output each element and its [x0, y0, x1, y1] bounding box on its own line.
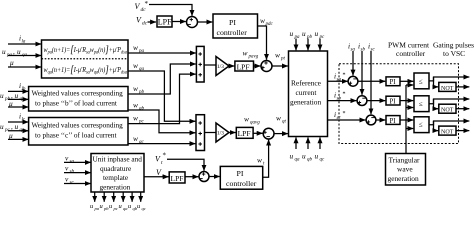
svg-text:LPF: LPF — [238, 129, 251, 138]
wire i_sb down into summing junction E2 — [361, 51, 363, 95]
wire mu into phase b box — [8, 106, 28, 108]
svg-text:qa: qa — [295, 158, 301, 163]
wire v_sa into template box — [64, 161, 91, 163]
svg-text:w: w — [243, 49, 248, 58]
wire template output u_pb down — [103, 192, 105, 202]
block PI controller U1 (dc bus) — [213, 14, 258, 38]
wire gain to LPF (Q) — [229, 132, 236, 134]
wire carrier into comparator C — [406, 128, 413, 130]
svg-text:u: u — [315, 29, 319, 38]
wire w_qa to summer Q input 1 — [128, 71, 195, 121]
svg-text:w: w — [133, 134, 138, 143]
svg-text:u: u — [128, 203, 132, 210]
wire E1 to PI A — [358, 80, 385, 82]
svg-text:qc: qc — [139, 140, 145, 145]
svg-text:≤: ≤ — [419, 100, 423, 108]
wire u_qb into ref box bottom — [307, 137, 309, 149]
wire template V_t output into LPF — [144, 176, 169, 178]
block LPF (P channel) — [235, 61, 254, 71]
summing junction E3 — [366, 115, 376, 125]
wire E2 to PI B — [367, 100, 385, 102]
wire summer P to gain 1/3 — [204, 64, 216, 66]
svg-text:t: t — [161, 160, 163, 166]
svg-text:qt: qt — [282, 120, 287, 125]
block unit inphase and quadrature template generation — [91, 154, 144, 193]
block weight equation box (phase a) — [42, 40, 129, 78]
svg-text:controller: controller — [396, 49, 426, 58]
summing junction S2 (w_pavg + w_pdc) — [261, 61, 272, 72]
summing junction E1 — [348, 76, 358, 86]
wire i_sc down into summing junction E3 — [370, 51, 372, 114]
summing junction S4 (Vt loop) — [199, 172, 209, 182]
svg-text:Triangular: Triangular — [389, 156, 420, 165]
gain block 1/3 (Q) — [216, 123, 229, 142]
svg-text:u: u — [119, 203, 123, 210]
wire carrier into comparator B — [406, 107, 413, 109]
wire i_La into equation box — [8, 43, 41, 45]
wire w_pc to summer P input 3 — [128, 74, 196, 124]
svg-text:u: u — [90, 203, 94, 210]
wire template output u_qc down — [140, 192, 142, 202]
wire triangular carrier distribution — [405, 85, 407, 153]
wire S4 to PI controller U3 — [209, 176, 220, 178]
svg-text:qc: qc — [320, 158, 326, 163]
wire v_sb into template box — [64, 172, 91, 174]
wire mu into phase c box — [8, 138, 28, 140]
svg-text:w: w — [275, 51, 280, 60]
svg-text:v: v — [65, 175, 69, 184]
wire summer Q to gain 1/3 — [205, 132, 217, 134]
wire w_pa to summer P input 1 — [128, 52, 196, 54]
wire template output u_qb down — [131, 192, 133, 202]
svg-text:w: w — [276, 114, 281, 123]
block summer P — [196, 46, 204, 82]
wire carrier into comparator A — [406, 84, 413, 86]
wire template output u_pa down — [94, 192, 96, 202]
svg-text:LPF: LPF — [171, 174, 184, 183]
wire u_pa u_qa into equation box — [8, 55, 41, 57]
wire w_qc to summer Q input 3 — [128, 143, 195, 145]
wire E3 to PI C — [376, 119, 385, 121]
block NOT A — [439, 82, 456, 91]
svg-text:w: w — [133, 101, 138, 110]
svg-text:pb: pb — [306, 35, 313, 40]
block triangular wave generation — [386, 154, 426, 186]
wire gain to LPF (P) — [229, 65, 234, 67]
svg-text:u: u — [290, 152, 294, 161]
svg-text:≤: ≤ — [419, 77, 423, 85]
block PI controller U3 (ac terminal voltage) — [220, 166, 262, 189]
wire PI A to comparator A — [400, 80, 413, 82]
summing junction E2 — [357, 96, 367, 106]
gain block 1/3 (P) — [216, 57, 229, 76]
svg-text:qb: qb — [307, 158, 313, 163]
svg-text:u: u — [17, 47, 21, 56]
wire u_pa into ref box top — [295, 39, 297, 51]
svg-text:u: u — [109, 203, 113, 210]
wire NOT A output — [456, 86, 469, 88]
svg-text:generation: generation — [100, 182, 131, 191]
svg-text:u: u — [0, 91, 4, 100]
wire u_qc into ref box bottom — [319, 137, 321, 149]
svg-text:u: u — [302, 152, 306, 161]
wire u_pc into ref box top — [319, 39, 321, 51]
svg-text:u: u — [0, 122, 4, 131]
block comparator C — [414, 117, 429, 133]
wire PI B to comparator B — [400, 100, 413, 102]
wire i_sa* into E1 — [328, 80, 348, 82]
wire w_pdc from U1 down into summing junction S2 — [258, 26, 267, 60]
svg-text:μ: μ — [9, 131, 13, 140]
svg-text:u: u — [302, 29, 306, 38]
wire i_sb* into E2 — [328, 100, 357, 102]
svg-text:NOT: NOT — [441, 86, 454, 92]
wire LPF to summing junction S3 — [253, 132, 263, 134]
wire comparator C to NOT C — [434, 121, 439, 131]
svg-text:LPF: LPF — [158, 18, 172, 27]
wire Vdc into LPF — [148, 21, 157, 23]
svg-text:*: * — [145, 0, 149, 8]
summing junction S1 (Vdc loop) — [187, 17, 198, 28]
svg-text:PI: PI — [390, 79, 397, 86]
svg-text:*: * — [343, 111, 346, 117]
svg-text:u: u — [15, 91, 19, 100]
svg-text:*: * — [163, 152, 167, 160]
block summer Q — [196, 115, 205, 151]
wire i_Lb into phase b box — [8, 90, 28, 92]
svg-text:quadrature: quadrature — [100, 164, 131, 173]
block weighted values phase c — [29, 118, 128, 146]
svg-text:PI: PI — [390, 118, 397, 125]
svg-text:*: * — [343, 73, 346, 79]
svg-text:pt: pt — [280, 57, 286, 62]
svg-text:u: u — [2, 47, 6, 56]
svg-text:w: w — [133, 114, 138, 123]
block LPF (Vdc) — [157, 16, 172, 27]
svg-text:μ: μ — [10, 58, 14, 67]
wire i_sc* into E3 — [328, 119, 366, 121]
svg-text:controller: controller — [226, 179, 257, 188]
svg-text:pa: pa — [294, 35, 301, 40]
wire LPF to S4 — [185, 176, 198, 178]
svg-text:PI: PI — [237, 169, 244, 178]
svg-text:LPF: LPF — [237, 62, 250, 71]
svg-text:PI: PI — [229, 18, 236, 27]
svg-text:sb: sb — [361, 48, 366, 53]
dashed PWM controller boundary — [339, 64, 459, 144]
block comparator A — [414, 73, 429, 89]
svg-text:current: current — [296, 88, 318, 97]
svg-text:u: u — [315, 152, 319, 161]
svg-text:generation: generation — [388, 174, 419, 183]
svg-text:v: v — [65, 154, 69, 163]
svg-text:dc: dc — [142, 21, 148, 27]
wire LPF to S1 — [172, 21, 186, 23]
wire comparator C output split — [429, 121, 469, 125]
wire LPF to summing junction S2 — [254, 65, 261, 67]
wire V_t* into summing junction S4 — [167, 159, 204, 171]
wire template output u_qa down — [122, 192, 124, 202]
summing junction S3 (w_qavg - w_t) — [263, 128, 274, 139]
svg-text:w: w — [244, 115, 249, 124]
svg-text:,: , — [13, 48, 15, 56]
wire v_sc into template box — [64, 183, 91, 185]
block PI C — [386, 116, 400, 125]
wire u_pb into ref box top — [307, 39, 309, 51]
wire comparator B to NOT B — [434, 99, 439, 109]
block NOT C — [439, 126, 456, 135]
svg-text:pc: pc — [113, 206, 118, 211]
wire w_pb to summer P input 2 — [128, 64, 196, 94]
svg-text:qc: qc — [142, 206, 146, 211]
wire Vdc* reference into summing junction S1 — [149, 5, 192, 16]
svg-text:qavg: qavg — [250, 121, 260, 126]
svg-text:NOT: NOT — [441, 130, 454, 136]
block PI B — [386, 96, 400, 105]
wire u_qa into ref box bottom — [295, 137, 297, 149]
svg-text:to phase ‘‘b’’ of load current: to phase ‘‘b’’ of load current — [35, 100, 117, 108]
block NOT B — [439, 104, 456, 113]
svg-text:u: u — [137, 203, 141, 210]
wire NOT C output — [456, 130, 469, 132]
svg-text:u: u — [100, 203, 104, 210]
wire comparator A output split — [429, 77, 469, 81]
svg-text:qb: qb — [139, 107, 145, 112]
svg-text:NOT: NOT — [441, 108, 454, 114]
wire w_pt into reference current generation — [272, 65, 288, 67]
wire w_qb to summer Q input 2 — [128, 110, 195, 133]
svg-text:generation: generation — [290, 98, 321, 107]
block LPF (Vt) — [169, 172, 185, 183]
wire i_Lc into phase c box — [8, 121, 28, 123]
svg-text:to VSC: to VSC — [443, 49, 465, 58]
svg-text:w: w — [257, 156, 262, 165]
wire PI C to comparator C — [400, 119, 413, 121]
wire template output u_pc down — [113, 192, 115, 202]
svg-text:w: w — [133, 84, 138, 93]
wire mu into equation box — [8, 66, 41, 68]
svg-text:Unit inphase and: Unit inphase and — [93, 155, 143, 164]
svg-text:1/3: 1/3 — [217, 64, 224, 70]
svg-text:,: , — [11, 123, 13, 131]
svg-text:controller: controller — [217, 28, 248, 37]
svg-text:Weighted values corresponding: Weighted values corresponding — [32, 90, 124, 98]
wire dotted divider inside equation box — [42, 58, 129, 60]
svg-text:≤: ≤ — [419, 121, 423, 129]
wire comparator B output split — [429, 99, 469, 104]
svg-text:w: w — [133, 43, 138, 52]
block reference current generation — [289, 51, 328, 137]
block weighted values phase b — [29, 87, 128, 112]
svg-text:*: * — [343, 92, 346, 98]
block LPF (Q channel) — [236, 127, 253, 138]
wire w_t from PI controller U3 up into S3 — [263, 140, 269, 178]
wire NOT B output — [456, 108, 469, 110]
wire S1 to PI controller U1 — [198, 21, 213, 23]
svg-text:u: u — [290, 29, 294, 38]
svg-text:w: w — [260, 16, 265, 25]
block comparator B — [414, 96, 429, 112]
svg-text:u: u — [15, 122, 19, 131]
svg-text:Reference: Reference — [291, 79, 322, 88]
svg-text:PI: PI — [390, 99, 397, 106]
block PI A — [386, 77, 400, 86]
svg-text:wave: wave — [397, 165, 413, 174]
svg-text:Weighted values corresponding: Weighted values corresponding — [32, 122, 124, 130]
wire i_sa down into summing junction E1 — [352, 51, 354, 76]
svg-text:to phase ‘‘c’’ of load current: to phase ‘‘c’’ of load current — [35, 132, 117, 140]
svg-text:1/3: 1/3 — [217, 131, 224, 137]
wire w_qt into reference current generation — [274, 133, 288, 135]
svg-text:v: v — [65, 164, 69, 173]
wire u_pb u_qb into phase b box — [8, 98, 28, 100]
svg-text:pavg: pavg — [248, 55, 259, 60]
svg-text:w: w — [133, 61, 138, 70]
svg-text:template: template — [103, 173, 128, 182]
wire comparator A to NOT A — [434, 77, 439, 87]
wire u_pc u_qc into phase c box — [8, 130, 28, 132]
